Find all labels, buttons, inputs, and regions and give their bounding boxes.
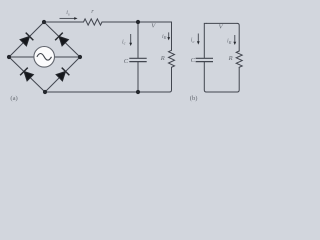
resistor r zigzag bbox=[84, 19, 103, 25]
wire capacitor branch (b) lower bbox=[204, 62, 206, 92]
diode D1 top-left bbox=[19, 33, 33, 47]
node right vertex junction bbox=[78, 55, 82, 59]
current arrow i_C (b) bbox=[197, 34, 200, 45]
wire bridge side L-T bbox=[9, 22, 44, 57]
capacitor C (a) plates bbox=[129, 58, 146, 61]
wire bridge side T-R bbox=[44, 22, 80, 57]
wire ac source right lead bbox=[55, 56, 81, 58]
wire resistor R branch upper (a) bbox=[171, 22, 173, 50]
node C branch top junction (a) bbox=[136, 20, 140, 24]
diode D4 bottom-right bbox=[55, 68, 69, 82]
wire bottom rail (b) bbox=[206, 91, 237, 93]
svg-text:(a): (a) bbox=[10, 95, 17, 102]
svg-text:C: C bbox=[124, 58, 129, 65]
capacitor C (b) plates bbox=[196, 58, 213, 61]
svg-text:iR: iR bbox=[227, 39, 232, 45]
wire top rail (b) bbox=[206, 22, 237, 24]
current arrow i_s bbox=[60, 17, 78, 20]
diode D2 top-right bbox=[55, 33, 69, 47]
wire capacitor C branch lower (a) bbox=[137, 62, 139, 92]
wire resistor R branch lower (a) bbox=[170, 67, 172, 92]
wire ac source left lead bbox=[9, 56, 34, 58]
svg-text:ic: ic bbox=[122, 39, 126, 45]
svg-text:R: R bbox=[160, 55, 165, 62]
wire resistor branch (b) upper bbox=[237, 23, 239, 51]
wire top rail left of resistor r bbox=[44, 21, 84, 23]
current arrow i_R (b) bbox=[233, 35, 236, 45]
wire capacitor C branch upper (a) bbox=[137, 22, 139, 58]
wire bridge side R-B bbox=[45, 57, 80, 92]
wire resistor branch (b) lower bbox=[237, 67, 239, 92]
node left vertex junction bbox=[7, 55, 11, 59]
svg-text:ic: ic bbox=[191, 38, 195, 44]
wire bridge side B-L bbox=[9, 57, 45, 92]
svg-text:(b): (b) bbox=[190, 95, 198, 102]
resistor R zigzag (b) bbox=[236, 51, 242, 67]
wire capacitor branch (b) upper bbox=[204, 23, 206, 57]
resistor R zigzag (a) bbox=[169, 50, 175, 67]
wire top rail right of resistor r bbox=[102, 21, 172, 23]
svg-text:R: R bbox=[228, 55, 233, 62]
current arrow i_C (a) bbox=[129, 34, 132, 46]
svg-text:is: is bbox=[66, 10, 70, 16]
wire bottom rail (a) bbox=[45, 91, 170, 93]
svg-text:C: C bbox=[191, 57, 196, 64]
current arrow i_R (a) bbox=[167, 32, 170, 40]
node bottom vertex junction bbox=[43, 90, 47, 94]
node top vertex junction bbox=[42, 20, 46, 24]
node C branch bottom junction (a) bbox=[136, 90, 140, 94]
ac source V1 bbox=[34, 47, 55, 68]
svg-text:iR: iR bbox=[162, 34, 167, 40]
diode D3 bottom-left bbox=[20, 68, 34, 82]
